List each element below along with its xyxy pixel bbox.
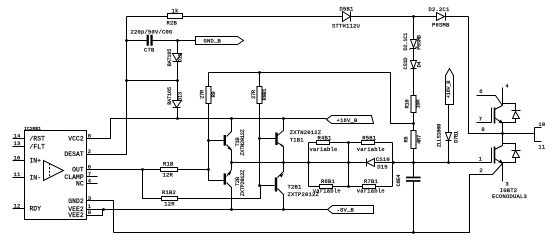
svg-text:D2.2C1: D2.2C1 (429, 6, 451, 13)
pin 12 RDY (13, 202, 42, 212)
node junction x=259.8 y=72 (258, 71, 261, 74)
wire network left column x=308.2 (308, 143, 310, 187)
pin 14 /RST (13, 132, 46, 142)
svg-text:IN+: IN+ (30, 158, 42, 165)
svg-text:STTH112U: STTH112U (332, 23, 360, 30)
transistor T2B ZXTP2012Z pnp (224, 163, 246, 210)
svg-text:D4: D4 (416, 62, 422, 68)
wire VEE2 -8V rail y=209 (87, 209, 328, 211)
node junction x=348 y=186 (347, 185, 350, 188)
svg-text:3: 3 (88, 195, 92, 202)
transistor T1B1 ZXTN2012Z npn (275, 119, 321, 163)
node junction x=260 y=185.8 (258, 184, 261, 187)
node junction x=177.4 y=80.5 (176, 79, 179, 82)
wire top-right rail drop x=468.9 to pin8 row (469, 17, 503, 134)
svg-text:ZXTN2012Z: ZXTN2012Z (240, 129, 246, 155)
wire T1B1 base row (260, 138, 276, 140)
svg-text:2: 2 (88, 148, 92, 155)
pin 1 VEE2 (68, 203, 92, 213)
svg-text:12: 12 (14, 202, 21, 209)
pin 3 emitter (503, 164, 509, 188)
node junction x=413.3 y=232.5 (412, 231, 415, 234)
svg-text:1k: 1k (172, 7, 180, 14)
node junction x=142 y=169.5 (141, 168, 144, 171)
node junction x=103 y=209 (102, 208, 105, 211)
svg-text:R6B1: R6B1 (321, 178, 336, 185)
svg-text:11: 11 (538, 144, 546, 151)
svg-text:13: 13 (14, 140, 21, 147)
pin 10 IN+ (13, 154, 42, 164)
svg-text:220p/50V/C0G: 220p/50V/C0G (131, 29, 173, 36)
svg-text:+16V_B: +16V_B (446, 81, 452, 99)
node junction rail x=232 (230, 117, 233, 120)
svg-text:R1B: R1B (163, 160, 174, 167)
wire base-drive top y=72 (209, 73, 414, 124)
resistor R6B1 variable (309, 178, 349, 195)
resistor R1B 12R (161, 160, 209, 178)
svg-text:IC20$1: IC20$1 (24, 126, 41, 132)
svg-text:C6E4: C6E4 (396, 175, 402, 187)
svg-text:R2B: R2B (167, 20, 178, 27)
svg-text:R8: R8 (403, 137, 409, 143)
wire mid link y=80.5 (127, 80, 178, 82)
node junction x=393 y=162.2 (392, 161, 395, 164)
wire network mid column x=348 (348, 143, 350, 187)
pin 0 VEE2 (68, 209, 102, 219)
svg-text:10: 10 (538, 121, 545, 128)
node junction x=348 y=142.5 (347, 141, 350, 144)
pin 7 gate top (477, 116, 492, 123)
svg-text:ECONODUAL3: ECONODUAL3 (492, 193, 527, 200)
resistor R4B1 variable (309, 134, 349, 153)
pin 3 GND2 (68, 195, 113, 233)
svg-text:R7B1: R7B1 (364, 178, 379, 185)
svg-text:ZXTP2012Z: ZXTP2012Z (240, 170, 246, 196)
svg-text:D7B1: D7B1 (453, 131, 459, 143)
pin 2 DESAT (64, 148, 91, 158)
svg-text:T1B1: T1B1 (290, 137, 305, 144)
capacitor C6E4 (396, 163, 420, 233)
svg-text:D12: D12 (177, 54, 183, 63)
svg-text:R10: R10 (404, 100, 410, 109)
svg-text:variable: variable (357, 146, 385, 153)
svg-text:variable: variable (310, 146, 338, 153)
svg-text:P6SMB: P6SMB (416, 35, 422, 50)
resistor R1B2 12R (162, 186, 261, 208)
node junction x=260 y=138.7 (258, 137, 261, 140)
svg-text:10: 10 (14, 154, 21, 161)
svg-text:12R: 12R (164, 200, 175, 207)
wire C7B row y=40 (127, 40, 196, 42)
wire T1B base row (209, 140, 224, 142)
svg-text:VCC2: VCC2 (68, 135, 84, 142)
svg-text:2: 2 (479, 167, 483, 174)
svg-text:6: 6 (88, 132, 92, 139)
svg-text:GND2: GND2 (68, 198, 84, 205)
node junction x=348 y=162.2 (347, 161, 350, 164)
svg-text:variable: variable (313, 188, 341, 195)
svg-text:CS10: CS10 (376, 156, 390, 163)
svg-text:4: 4 (505, 82, 509, 89)
transistor IGBT bottom: gate bars (492, 146, 504, 164)
resistor R9B1 27R (251, 73, 268, 139)
diode D13 BAT165 (167, 81, 183, 119)
net flag GND_B (196, 37, 244, 45)
diode D5B1 STTH112U (332, 6, 360, 30)
diode CS10 D15 (367, 156, 390, 170)
diode D2.1C1 P6SMB zener (403, 17, 422, 51)
pin 11 IN- (13, 171, 42, 181)
net flag +16V_B horizontal (327, 116, 374, 125)
node junction D13 to rail (176, 117, 179, 120)
svg-text:T2B1: T2B1 (288, 184, 303, 191)
pin 7 CLAMP (64, 171, 97, 181)
svg-text:D2.1C1: D2.1C1 (403, 33, 409, 51)
pin 6 collector sense (477, 88, 503, 105)
svg-text:4: 4 (88, 177, 92, 184)
svg-text:NC: NC (76, 181, 84, 188)
svg-text:D13: D13 (177, 92, 183, 101)
svg-text:6: 6 (479, 88, 483, 95)
svg-text:BAT165: BAT165 (167, 87, 173, 105)
svg-text:IN-: IN- (30, 174, 42, 181)
svg-text:12R: 12R (163, 172, 174, 179)
node junction x=232 y=162.2 (230, 161, 233, 164)
resistor R8 4R7 (403, 124, 422, 163)
resistor R2B (167, 7, 183, 26)
label IGBT2 ECONODUAL3 (492, 187, 527, 200)
svg-text:OUT: OUT (72, 167, 84, 174)
svg-text:RDY: RDY (30, 206, 42, 213)
wire midline to pins 10 11 (503, 128, 542, 142)
wire bottom emitter rail y=232.5 (114, 164, 503, 233)
node junction x=308.2 y=162.2 (307, 161, 310, 164)
pin 4 NC (76, 177, 97, 187)
svg-text:1: 1 (479, 156, 483, 163)
svg-text:R5B1: R5B1 (362, 134, 377, 141)
node junction x=283.5 y=162.2 (282, 161, 285, 164)
svg-text:R9: R9 (211, 92, 217, 98)
resistor R7B1 variable (349, 178, 393, 195)
svg-text:D15: D15 (377, 163, 388, 170)
wire R1B2 riser (143, 170, 162, 199)
node junction x=413.3 y=162.2 (412, 161, 415, 164)
op-amp comparator symbol inside IC (44, 161, 64, 181)
wire output row y=162.2 (232, 162, 492, 164)
svg-text:27R: 27R (200, 90, 206, 99)
node junction x=126 y=80.5 (125, 79, 128, 82)
node junction top rail x=413.5 (412, 15, 415, 18)
wire midpoint vertical (502, 124, 504, 146)
resistor R5B1 variable (349, 134, 393, 153)
IC20$1 gate driver box (24, 126, 87, 220)
svg-text:D5B1: D5B1 (340, 6, 355, 13)
wire top rail DESAT sense y=16.5 (127, 16, 469, 18)
resistor R9 27R (200, 73, 217, 143)
svg-text:ZLLS1000: ZLLS1000 (437, 124, 443, 147)
svg-text:/FLT: /FLT (30, 143, 46, 150)
svg-text:BAT165: BAT165 (167, 49, 173, 67)
svg-text:R9B1: R9B1 (262, 89, 268, 101)
net flag -8V_B (328, 206, 374, 214)
diode D2.2C1 P6SMB (429, 6, 451, 29)
svg-text:P6SMB: P6SMB (432, 22, 450, 29)
node junction x=232 y=209 (230, 208, 233, 211)
wire network right column x=393 (392, 143, 394, 187)
wire +16V rail y=118.5 with VCC2 jog (87, 119, 327, 139)
svg-text:0: 0 (88, 209, 92, 216)
node junction rail x=283.5 (282, 117, 285, 120)
svg-text:R4B1: R4B1 (318, 134, 333, 141)
pin 13 /FLT (13, 140, 46, 150)
wire right base column x=260 (260, 139, 275, 186)
diode antiparallel bottom (503, 144, 521, 163)
svg-text:10R: 10R (416, 100, 422, 109)
node junction x=208.6 y=169.5 (207, 168, 210, 171)
svg-text:+16V_B: +16V_B (337, 117, 359, 124)
transistor T2B1 ZXTP2012Z pnp (275, 163, 320, 210)
svg-text:variable: variable (357, 188, 385, 195)
svg-text:14: 14 (14, 132, 22, 139)
transistor IGBT top: gate bars (492, 106, 504, 124)
svg-text:11: 11 (14, 171, 22, 178)
svg-text:CS1D: CS1D (403, 58, 409, 70)
net flag +16V_B vertical (446, 69, 454, 105)
svg-text:GND_B: GND_B (204, 38, 222, 45)
wire DESAT vertical x=126 (87, 17, 127, 155)
diode antiparallel top (503, 104, 521, 123)
diode CS1D D4 (403, 49, 422, 70)
diode D7B1 ZLLS1000 (437, 105, 460, 163)
svg-text:R1B2: R1B2 (162, 189, 176, 196)
svg-text:27R: 27R (251, 90, 257, 99)
pin 4 collector (503, 82, 510, 105)
node junction x=413.3 y=123.5 (412, 122, 415, 125)
node junction x=448.5 y=162.2 (447, 161, 450, 164)
capacitor C7B 220p/50V/C0G (131, 29, 173, 54)
svg-text:8: 8 (481, 126, 485, 133)
node junction x=283.5 y=209 (282, 208, 285, 211)
svg-text:/RST: /RST (30, 136, 46, 143)
svg-text:C7B: C7B (144, 47, 155, 54)
transistor T1B ZXTN2012Z npn (224, 119, 246, 163)
node junction x=126 y=40 (125, 39, 128, 42)
pin 6 VCC2 (68, 132, 91, 142)
svg-text:DESAT: DESAT (64, 151, 84, 158)
svg-text:-8V_B: -8V_B (337, 207, 355, 214)
wire left base column x=208.6 (209, 141, 224, 181)
pin 6 OUT (72, 163, 91, 173)
node junction x=177.4 y=40 (176, 39, 179, 42)
wire OUT row y=169.5 (87, 169, 161, 171)
svg-text:7: 7 (479, 116, 483, 123)
svg-text:4R7: 4R7 (417, 135, 423, 144)
node junction midpoint y=133.7 (501, 132, 504, 135)
svg-text:VEE2: VEE2 (68, 212, 84, 219)
diode D12 BAT165 (167, 41, 183, 81)
node junction x=208.6 y=141 (207, 139, 210, 142)
resistor R10 10R (404, 69, 421, 124)
